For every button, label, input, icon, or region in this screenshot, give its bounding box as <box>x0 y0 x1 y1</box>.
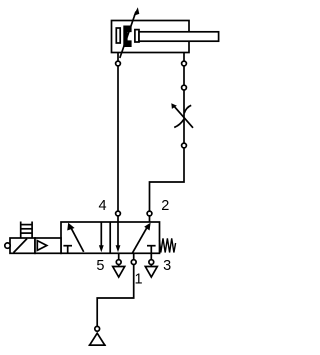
node: valve port 5 <box>116 260 121 265</box>
cylinder piston (black block with notch) <box>123 26 131 48</box>
pilot triangle <box>37 241 47 251</box>
svg-text:4: 4 <box>99 198 107 214</box>
wire: port2 node stub <box>149 216 151 222</box>
cylinder left port stub <box>117 53 119 62</box>
pilot amplifier box <box>35 238 61 253</box>
throttle valve: lower-left arc <box>174 119 184 127</box>
throttle valve: upper-right arc <box>184 105 191 113</box>
node: valve port 2 <box>147 211 152 216</box>
wire: cylinder left port down to valve port 4 <box>117 66 119 211</box>
left chamber vertical arrow 2->3 <box>100 222 102 247</box>
cylinder left cushion rect <box>116 28 120 43</box>
node: valve port 3 <box>149 260 154 265</box>
left chamber blocked port T <box>63 245 72 247</box>
wire: throttle flow line <box>183 90 185 143</box>
node: throttle bottom <box>182 143 187 148</box>
cushioning adjust arrow <box>120 12 136 59</box>
valve V1 body <box>61 222 160 253</box>
valve port 5 stub <box>118 253 120 259</box>
solenoid terminal ladder <box>20 222 22 239</box>
right chamber blocked port T <box>147 245 156 247</box>
return spring <box>160 238 176 252</box>
exhaust silencer port 5 <box>118 265 120 267</box>
cylinder right port stub <box>183 53 185 62</box>
node: valve port 1 <box>131 260 136 265</box>
left chamber diagonal arrow 1->4 <box>70 226 84 252</box>
solenoid diagonal <box>14 239 28 253</box>
compressed air supply triangle <box>90 333 105 345</box>
svg-text:5: 5 <box>96 258 104 274</box>
right chamber vertical arrow 4->5 <box>117 222 119 247</box>
cylinder right cushion rect <box>135 30 139 42</box>
cylinder A1 body <box>112 21 190 53</box>
valve chamber divider <box>109 222 111 253</box>
valve port 1 stub <box>133 253 135 259</box>
solenoid coil box <box>10 238 35 253</box>
right chamber diagonal arrow 1->2 <box>132 227 147 253</box>
wire: port4 node stub <box>117 216 119 222</box>
wire: throttle down, jog left to valve port 2 <box>150 148 185 211</box>
svg-text:3: 3 <box>163 258 171 274</box>
node: cylinder right port <box>182 61 187 66</box>
throttle valve RD1: adjust arrow <box>174 106 194 128</box>
svg-text:2: 2 <box>161 198 169 214</box>
node: throttle top <box>182 85 187 90</box>
node: valve port 4 <box>116 211 121 216</box>
wire: port 1 to air supply <box>97 265 134 327</box>
svg-text:1: 1 <box>134 271 142 287</box>
valve port 3 stub <box>150 253 152 259</box>
node: solenoid electrical connection <box>5 243 10 248</box>
cylinder piston rod <box>139 32 219 41</box>
node: cylinder left port <box>116 61 121 66</box>
exhaust silencer port 3 <box>150 265 152 267</box>
node: air supply <box>95 326 100 331</box>
wire: cylinder right port to throttle <box>183 66 185 85</box>
